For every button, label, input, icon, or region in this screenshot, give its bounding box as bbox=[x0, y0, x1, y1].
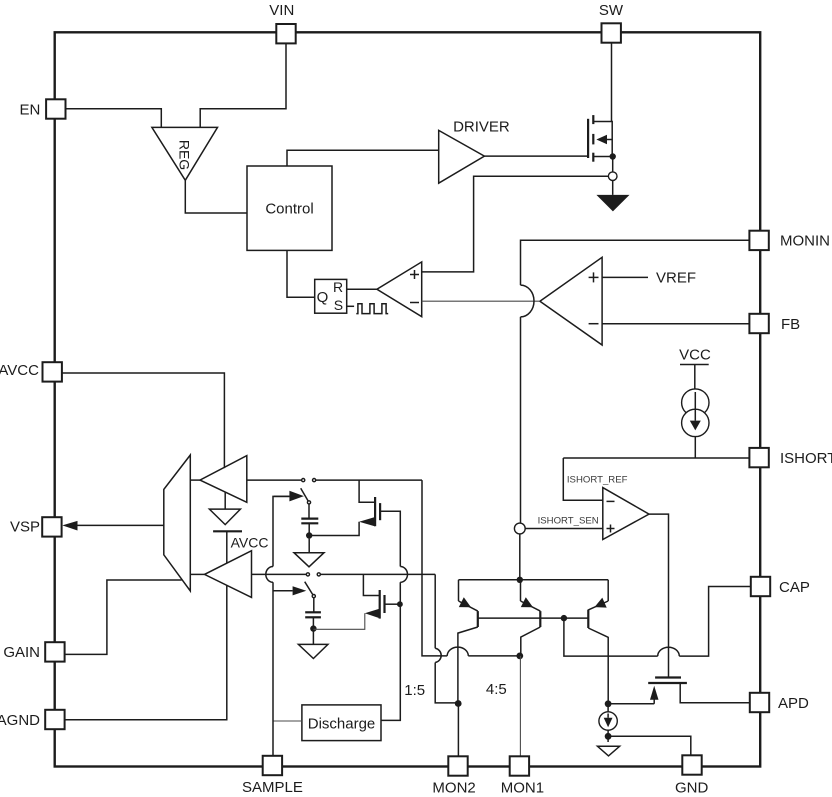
mirror top rail bbox=[459, 579, 609, 581]
node ISHORT_SEN circle bbox=[514, 523, 525, 534]
ground symbol C1 bbox=[308, 539, 310, 553]
latch RS box bbox=[315, 279, 347, 313]
svg-text:GND: GND bbox=[675, 780, 709, 797]
pin GAIN bbox=[45, 642, 64, 661]
buffer B1 bbox=[190, 479, 200, 481]
transistor Q3 diode connected bbox=[607, 580, 609, 601]
pin VSP bbox=[42, 517, 61, 536]
wire DRIVER out to M1 gate bbox=[484, 155, 588, 157]
transistor M1 power NMOS bbox=[587, 119, 589, 158]
pin MON2 bbox=[448, 756, 467, 775]
wire to MON2 pin bbox=[457, 704, 459, 757]
svg-text:S: S bbox=[334, 297, 343, 313]
wire B1 input bbox=[247, 479, 302, 481]
svg-text:AGND: AGND bbox=[0, 712, 40, 729]
pin CAP bbox=[751, 577, 770, 596]
wire EN to REG bbox=[66, 109, 162, 128]
svg-text:FB: FB bbox=[781, 316, 800, 333]
pin VIN bbox=[276, 24, 295, 43]
wire MONIN sense bbox=[521, 240, 751, 285]
wire SAMPLE control vertical with hop bbox=[272, 582, 274, 756]
svg-text:GAIN: GAIN bbox=[3, 644, 40, 661]
svg-text:1:5: 1:5 bbox=[404, 682, 425, 699]
transistor T1 discharge bbox=[359, 480, 375, 502]
svg-text:EN: EN bbox=[20, 102, 41, 119]
svg-text:R: R bbox=[333, 279, 343, 295]
regulator REG triangle bbox=[152, 127, 218, 180]
pin AGND bbox=[45, 710, 64, 729]
svg-text:CAP: CAP bbox=[779, 579, 810, 596]
M1 source wire bbox=[593, 156, 613, 158]
M1 body arrow bbox=[596, 135, 607, 144]
wire MON1 rail bbox=[422, 480, 447, 656]
wire SAMPLE to Discharge bbox=[273, 720, 302, 722]
pin MON1 bbox=[510, 756, 529, 775]
wire VIN to REG bbox=[200, 43, 286, 127]
pin MONIN bbox=[749, 231, 768, 250]
wire Control to DRIVER bbox=[287, 150, 439, 166]
current source I1 bbox=[682, 389, 709, 416]
wire C2 to T2 source bbox=[313, 613, 364, 629]
svg-text:MONIN: MONIN bbox=[780, 233, 830, 250]
pin SAMPLE bbox=[263, 756, 282, 775]
wire to GND pin bbox=[608, 736, 691, 756]
switch SW2 bbox=[306, 573, 309, 576]
transistor M2 APD bbox=[655, 676, 681, 678]
buffer B2 bbox=[190, 573, 204, 575]
pin APD bbox=[750, 693, 769, 712]
B1 ground symbol bbox=[224, 492, 226, 509]
pin SW bbox=[602, 23, 621, 42]
pin AVCC bbox=[43, 362, 62, 381]
svg-text:VCC: VCC bbox=[679, 347, 711, 364]
wire discharge gate line with hop bbox=[400, 567, 407, 583]
wire base to CAP rail bbox=[564, 618, 658, 656]
comparator PWM bbox=[377, 262, 422, 317]
error amp bbox=[540, 257, 602, 345]
ground symbol C2 bbox=[312, 632, 314, 645]
svg-text:DRIVER: DRIVER bbox=[453, 118, 510, 135]
wire AGND bbox=[65, 719, 228, 721]
mux 2:1 bbox=[164, 455, 191, 591]
power ground arrow bbox=[596, 195, 629, 212]
capacitor C1 bbox=[308, 504, 310, 519]
mirror base line bbox=[478, 617, 589, 619]
wire GAIN bbox=[65, 580, 182, 654]
svg-text:VREF: VREF bbox=[656, 269, 696, 286]
pin ISHORT bbox=[749, 448, 768, 467]
wire VREF bbox=[602, 276, 648, 278]
node SW source bbox=[612, 157, 614, 173]
svg-text:AVCC: AVCC bbox=[0, 362, 39, 379]
wire AVCC to B1 bbox=[63, 373, 225, 468]
supply AVCC bar bbox=[213, 530, 242, 532]
wire C1 to T1 source bbox=[309, 522, 359, 536]
wire B2 bottom to AGND bbox=[226, 585, 228, 719]
pin GND bbox=[682, 755, 701, 774]
wire sense to plus bbox=[525, 528, 603, 530]
transistor T2 discharge bbox=[363, 574, 379, 595]
svg-text:AVCC: AVCC bbox=[231, 535, 269, 551]
svg-text:Q: Q bbox=[317, 289, 329, 306]
svg-text:VIN: VIN bbox=[269, 2, 294, 19]
M1 drain wire bbox=[593, 122, 612, 157]
capacitor C2 bbox=[313, 598, 315, 613]
wire B2 input bbox=[252, 573, 307, 575]
svg-text:REG: REG bbox=[177, 140, 193, 170]
chip outline border bbox=[55, 32, 761, 766]
wire Control to RS latch Q bbox=[287, 250, 315, 297]
wire REG out to Control bbox=[185, 180, 247, 213]
comparator ISHORT bbox=[563, 458, 603, 500]
block Discharge bbox=[302, 705, 381, 741]
wire hop over error amp out bbox=[521, 285, 535, 317]
clock pulse symbol on S bbox=[347, 305, 354, 307]
pin FB bbox=[749, 314, 768, 333]
svg-text:4:5: 4:5 bbox=[486, 681, 507, 698]
svg-text:ISHORT_SEN: ISHORT_SEN bbox=[538, 516, 599, 527]
driver DRIVER triangle bbox=[439, 130, 485, 183]
wire PWM out to R bbox=[347, 288, 377, 290]
wire ISHORT bbox=[563, 457, 750, 459]
wire error amp out to PWM minus bbox=[422, 300, 540, 302]
wire FB bbox=[602, 323, 750, 325]
wire VSP with arrow bbox=[78, 524, 164, 526]
svg-text:APD: APD bbox=[778, 695, 809, 712]
wire ISHORT comp out bbox=[649, 514, 669, 677]
transistor Q2 bbox=[520, 580, 522, 601]
svg-text:Discharge: Discharge bbox=[308, 715, 376, 732]
switch SW1 bbox=[302, 479, 305, 482]
svg-text:SW: SW bbox=[599, 2, 624, 19]
wire MON2 rail with hop bbox=[434, 574, 436, 648]
wire current sense feedback bbox=[422, 176, 609, 272]
current source I2 bbox=[607, 704, 609, 712]
svg-text:SAMPLE: SAMPLE bbox=[242, 779, 303, 796]
svg-text:VSP: VSP bbox=[10, 519, 40, 536]
ground symbol bbox=[598, 746, 620, 756]
svg-text:MON1: MON1 bbox=[501, 779, 544, 796]
transistor Q1 bbox=[458, 580, 460, 601]
wire to MON1 pin bbox=[519, 656, 521, 756]
svg-text:ISHORT: ISHORT bbox=[780, 450, 832, 467]
block Control bbox=[247, 166, 332, 250]
wire SW to M1 drain bbox=[611, 43, 613, 122]
svg-text:ISHORT_REF: ISHORT_REF bbox=[567, 474, 628, 485]
svg-text:Control: Control bbox=[265, 201, 313, 218]
pin EN bbox=[46, 99, 65, 118]
svg-text:MON2: MON2 bbox=[432, 779, 475, 796]
